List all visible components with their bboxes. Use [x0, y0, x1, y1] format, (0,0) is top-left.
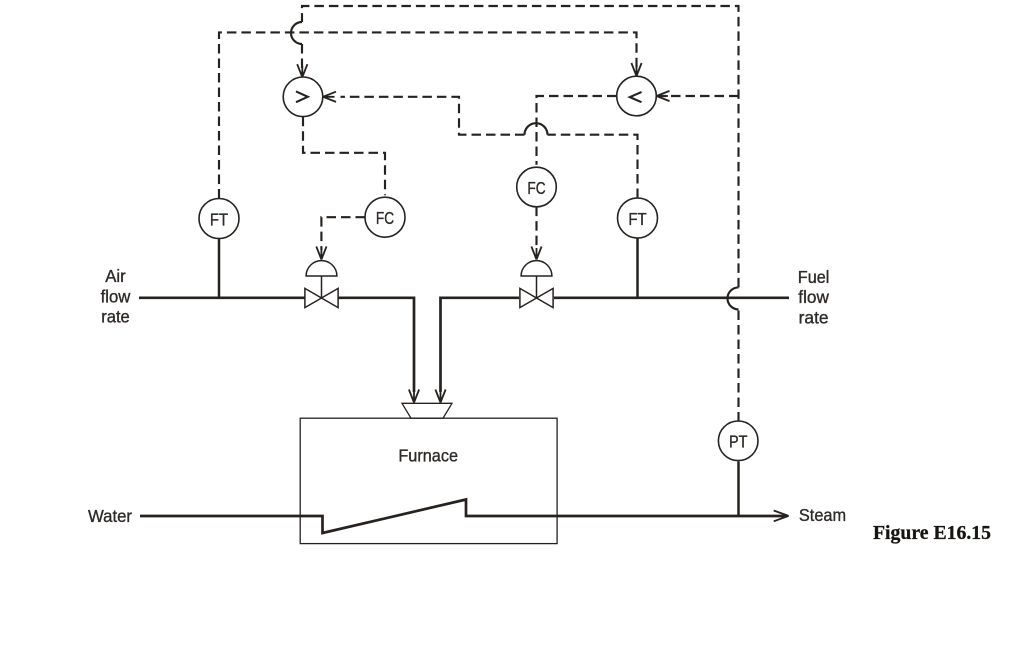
arrowhead air feed into burner trapezoid: [409, 390, 419, 403]
wire: dashed air FC output left and down to air valve actuator: [321, 217, 365, 250]
instrument circle: fuel FC: [517, 167, 557, 207]
svg-text:rate: rate: [101, 307, 130, 327]
arrowhead into high selector right: [323, 92, 336, 102]
instrument circle: low selector: [617, 76, 657, 116]
wire: water inlet, boiler zigzag, steam outlet: [140, 500, 785, 534]
arrowhead fuel feed into burner trapezoid: [435, 390, 445, 403]
instrument circle: PT: [718, 421, 758, 461]
svg-text:flow: flow: [101, 286, 131, 306]
svg-text:FC: FC: [527, 178, 545, 198]
svg-text:flow: flow: [798, 287, 829, 307]
wire: dashed low selector output left and down to fuel FC: [537, 96, 617, 165]
control valve V2 (fuel): bowtie body: [520, 288, 553, 307]
furnace box: [300, 418, 557, 543]
svg-text:FC: FC: [376, 208, 394, 228]
control valve V1 (air): bowtie body: [305, 288, 338, 307]
wire crossover hop on fuel-FT line over low selector output: [525, 123, 548, 135]
svg-text:Figure E16.15: Figure E16.15: [873, 523, 991, 544]
svg-text:Fuel: Fuel: [798, 267, 830, 287]
low selector < symbol: [630, 92, 642, 102]
wire: dashed fuel FT signal up, left, up into high selector right side: [548, 135, 638, 198]
arrowhead into low selector top: [631, 63, 641, 76]
instrument circle: air FC: [365, 197, 405, 237]
wire: dashed PT signal up right side, across top, down into high selector: [302, 6, 739, 422]
arrowhead steam outlet: [774, 511, 789, 522]
arrowhead into air valve actuator: [316, 247, 326, 260]
svg-text:Steam: Steam: [799, 505, 846, 525]
svg-text:Furnace: Furnace: [398, 446, 458, 466]
wire: PT stem to steam pipe: [737, 462, 740, 517]
svg-text:FT: FT: [210, 209, 228, 229]
wire: dashed air FT signal up and across to low selector top: [219, 32, 637, 198]
svg-text:Water: Water: [88, 506, 132, 526]
svg-text:rate: rate: [799, 307, 829, 327]
instrument circle: air FT: [199, 199, 239, 239]
instrument circle: fuel FT: [618, 198, 658, 238]
wire: fuel pipe: [554, 296, 789, 299]
wire: air pipe: [139, 296, 305, 299]
arrowhead into high selector top: [297, 64, 307, 77]
instrument circle: high selector: [283, 77, 323, 117]
high selector > symbol: [296, 91, 308, 102]
wire crossover hop on PT riser over fuel pipe: [728, 287, 739, 309]
control valve V1 (air): actuator dome: [306, 261, 337, 276]
wire crossover hop on PT riser over air-FT line: [291, 22, 302, 44]
arrowhead into fuel valve actuator: [531, 247, 541, 260]
svg-text:FT: FT: [628, 209, 646, 229]
wire: dashed high selector output down-right to air FC: [303, 117, 385, 196]
control valve V2 (fuel): actuator dome: [521, 261, 552, 276]
wire: dashed branch from PT riser into low selector right side: [660, 95, 739, 97]
svg-text:PT: PT: [729, 432, 748, 452]
svg-text:Air: Air: [105, 266, 126, 286]
burner inlet trapezoid: [402, 403, 452, 418]
wire: air FT stem to pipe: [218, 239, 221, 298]
wire: fuel FT stem to pipe: [636, 238, 639, 298]
arrowhead into low selector right: [657, 91, 670, 101]
wire: dashed fuel FC output down to fuel valve actuator: [535, 207, 537, 250]
